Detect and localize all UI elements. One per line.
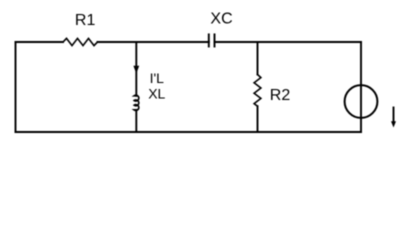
wire: bottom rail <box>16 131 362 133</box>
wire: R2 branch upper segment <box>257 42 259 75</box>
svg-text:XL: XL <box>148 86 165 102</box>
capacitor XC right plate <box>214 34 216 46</box>
wire: top rail right segment from capacitor to right branch <box>215 41 362 43</box>
arrow head for branch current I'L <box>133 66 139 74</box>
wire: right branch vertical <box>360 42 362 132</box>
wire: R2 branch lower segment <box>257 106 259 132</box>
current source SRC1 circle <box>345 85 378 118</box>
arrow head for external source current <box>391 121 396 127</box>
wire: I'L branch lower segment <box>135 110 137 132</box>
svg-text:R2: R2 <box>270 87 291 104</box>
wire: left vertical rail <box>15 42 17 132</box>
capacitor XC left plate <box>208 34 210 46</box>
resistor R1 <box>63 38 98 45</box>
svg-text:R1: R1 <box>75 12 96 29</box>
wire: top rail from R1 to capacitor <box>98 41 209 43</box>
svg-text:I'L: I'L <box>150 70 165 86</box>
inductor XL <box>134 95 139 110</box>
wire: top rail left lead <box>16 41 64 43</box>
wire: I'L branch upper segment <box>135 42 137 96</box>
wire: external current arrow shaft <box>393 108 395 124</box>
resistor R2 <box>254 75 261 107</box>
svg-text:XC: XC <box>210 10 232 27</box>
